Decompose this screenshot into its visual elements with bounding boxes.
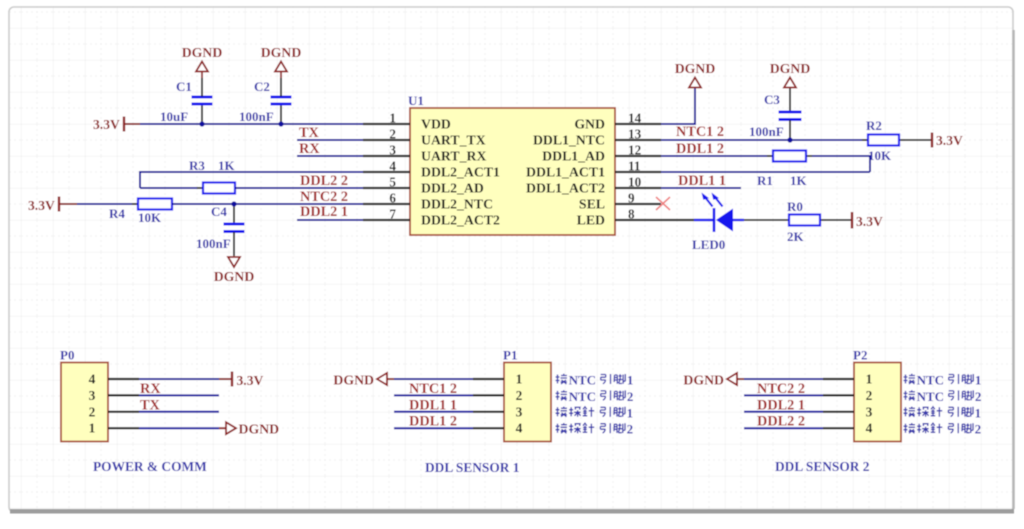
- svg-text:C3: C3: [764, 92, 780, 107]
- svg-text:3: 3: [89, 388, 96, 403]
- svg-text:5: 5: [389, 175, 396, 190]
- svg-text:1K: 1K: [218, 158, 236, 173]
- svg-text:1: 1: [975, 373, 982, 388]
- P2 pin function label 接NTC 引脚1: [904, 374, 916, 384]
- P2 pin function label 接探针 引脚2: [904, 423, 916, 433]
- capacitor C4: [233, 204, 235, 224]
- wire DDL2_ACT2 (pin 7) / net label DDL2_1: [297, 219, 363, 221]
- wire TX / net label TX: [297, 139, 363, 141]
- svg-text:100nF: 100nF: [196, 236, 231, 251]
- svg-text:9: 9: [628, 191, 635, 206]
- P0 pin 1: [108, 427, 139, 429]
- wire P2 pin2 / net label NTC2_2: [744, 394, 823, 396]
- power port 3.3V (VDD rail): [123, 117, 125, 132]
- svg-text:3: 3: [389, 143, 396, 158]
- U1 pin 10 (DDL1_ACT2): [615, 187, 661, 189]
- svg-text:1: 1: [627, 405, 634, 420]
- svg-text:RX: RX: [299, 141, 320, 157]
- LED LED0: [661, 219, 694, 221]
- junction C1/VDD: [199, 121, 204, 126]
- svg-text:DDL SENSOR 2: DDL SENSOR 2: [775, 459, 870, 474]
- svg-text:7: 7: [389, 207, 396, 222]
- power port 3.3V (right of R0): [851, 212, 853, 229]
- svg-text:RX: RX: [140, 381, 161, 397]
- svg-text:C1: C1: [176, 79, 192, 94]
- svg-text:11: 11: [628, 159, 640, 174]
- svg-text:R1: R1: [757, 173, 773, 188]
- svg-text:10uF: 10uF: [160, 109, 188, 124]
- wire DDL1_AD (pin12) / net label DDL1_2: [661, 155, 773, 157]
- P2 pin 2: [823, 394, 854, 396]
- svg-text:100nF: 100nF: [239, 109, 274, 124]
- wire R1 to pin11: [812, 155, 870, 157]
- svg-text:4: 4: [516, 421, 523, 436]
- junction C3/NTC1 wire: [787, 137, 792, 142]
- svg-text:10: 10: [628, 175, 642, 190]
- wire P1 pin1: [387, 378, 394, 380]
- svg-text:P2: P2: [853, 348, 867, 363]
- svg-text:C4: C4: [211, 204, 227, 219]
- svg-text:2: 2: [866, 388, 873, 403]
- svg-text:DDL2 2: DDL2 2: [757, 414, 805, 430]
- svg-text:NTC2 2: NTC2 2: [300, 189, 348, 205]
- svg-text:4: 4: [89, 372, 96, 387]
- U1 pin 7 (DDL2_ACT2): [363, 219, 410, 221]
- svg-text:2: 2: [516, 388, 523, 403]
- capacitor C1: [201, 105, 203, 125]
- P0 pin 2: [108, 411, 139, 413]
- P0 pin 4: [108, 378, 139, 380]
- svg-text:GND: GND: [574, 117, 605, 132]
- svg-text:DDL1_ACT2: DDL1_ACT2: [526, 181, 605, 196]
- resistor R0 2K: [744, 219, 789, 221]
- svg-text:DDL1 2: DDL1 2: [409, 414, 457, 430]
- svg-text:U1: U1: [408, 93, 424, 108]
- P1 pin 1: [473, 378, 504, 380]
- svg-text:2: 2: [627, 389, 634, 404]
- svg-text:UART_RX: UART_RX: [421, 149, 486, 164]
- ground DGND above pin14: [689, 78, 701, 88]
- resistor R4 10K: [132, 203, 138, 205]
- svg-text:DDL1 1: DDL1 1: [678, 173, 726, 189]
- svg-text:2: 2: [389, 127, 396, 142]
- U1 pin 13 (DDL1_NTC): [615, 139, 661, 141]
- svg-text:DDL2_AD: DDL2_AD: [421, 181, 484, 196]
- svg-text:UART_TX: UART_TX: [421, 133, 486, 148]
- wire VDD rail: [140, 123, 363, 125]
- power port 3.3V (P0): [231, 372, 233, 387]
- resistor R1 1K: [767, 155, 773, 157]
- wire DDL1_ACT2 (pin10) / net label DDL1_1: [661, 187, 741, 189]
- junction C2/VDD: [278, 121, 283, 126]
- power port 3.3V (R4 rail): [58, 197, 60, 212]
- P2 pin function label 接NTC 引脚2: [904, 390, 916, 400]
- svg-text:NTC1 2: NTC1 2: [409, 381, 457, 397]
- svg-text:3.3V: 3.3V: [28, 198, 55, 213]
- wire P0 pin4 to 3.3V: [139, 378, 219, 380]
- wire GND pin14 to DGND: [661, 123, 695, 125]
- ground DGND above C3: [784, 78, 796, 88]
- wire P1 pin3 / net label DDL1_1: [394, 411, 473, 413]
- LED0 emission arrows: [705, 197, 713, 207]
- ground DGND above C2: [275, 62, 287, 72]
- capacitor C3: [789, 88, 791, 112]
- svg-text:10K: 10K: [138, 210, 162, 225]
- svg-text:14: 14: [628, 111, 642, 126]
- U1 pin 6 (DDL2_NTC): [363, 203, 410, 205]
- svg-text:DDL2_ACT1: DDL2_ACT1: [421, 165, 500, 180]
- svg-text:2: 2: [89, 404, 96, 419]
- P1 pin function label 接NTC 引脚1: [556, 374, 568, 384]
- svg-text:R3: R3: [189, 158, 205, 173]
- svg-text:TX: TX: [140, 397, 161, 413]
- svg-text:3.3V: 3.3V: [936, 133, 963, 148]
- svg-text:NTC1 2: NTC1 2: [676, 124, 724, 140]
- ground DGND (P2 pin1): [727, 373, 737, 385]
- connector P0 body: [61, 363, 108, 442]
- svg-text:NTC2 2: NTC2 2: [757, 381, 805, 397]
- svg-text:10K: 10K: [868, 148, 892, 163]
- svg-text:NTC: NTC: [917, 389, 944, 404]
- wire P0 pin3 / net label RX: [139, 394, 219, 396]
- svg-text:3.3V: 3.3V: [237, 373, 264, 388]
- ground DGND below C4: [228, 257, 240, 267]
- U1 pin 3 (UART_RX): [363, 155, 410, 157]
- svg-text:DDL SENSOR 1: DDL SENSOR 1: [425, 460, 520, 475]
- P1 pin function label 接探针 引脚2: [556, 423, 568, 433]
- resistor R2 10K: [862, 139, 868, 141]
- junction C4/NTC2 wire: [231, 201, 236, 206]
- svg-text:LED0: LED0: [692, 237, 725, 252]
- svg-text:POWER & COMM: POWER & COMM: [93, 459, 207, 474]
- svg-text:DDL2_ACT2: DDL2_ACT2: [421, 213, 500, 228]
- svg-text:1K: 1K: [790, 173, 808, 188]
- svg-text:NTC: NTC: [569, 389, 596, 404]
- svg-text:2: 2: [975, 422, 982, 437]
- wire DDL2_NTC (pin 6) / net label NTC2_2: [172, 203, 363, 205]
- U1 pin 12 (DDL1_AD): [615, 155, 661, 157]
- svg-text:P1: P1: [503, 348, 517, 363]
- svg-text:1: 1: [516, 372, 523, 387]
- svg-text:3.3V: 3.3V: [856, 214, 883, 229]
- wire P1 pin2 / net label NTC1_2: [394, 394, 473, 396]
- wire P2 pin4 / net label DDL2_2: [744, 427, 823, 429]
- wire R2 to 3.3V: [905, 139, 932, 141]
- svg-text:1: 1: [627, 373, 634, 388]
- resistor R3 1K: [140, 187, 203, 189]
- svg-text:13: 13: [628, 127, 642, 142]
- wire P2 pin1: [737, 378, 744, 380]
- U1 pin 1 (VDD): [363, 123, 410, 125]
- wire P2 pin3 / net label DDL2_1: [744, 411, 823, 413]
- wire R0 to 3.3V: [826, 219, 852, 221]
- power port 3.3V (right of R2): [931, 133, 933, 148]
- capacitor C2: [280, 105, 282, 125]
- svg-text:12: 12: [628, 143, 642, 158]
- P2 pin 1: [823, 378, 854, 380]
- svg-text:DGND: DGND: [261, 45, 302, 60]
- wire NTC1_2 (pin13) / net label NTC1_2: [661, 139, 868, 141]
- svg-text:DDL1 2: DDL1 2: [676, 141, 724, 157]
- svg-text:DDL2 2: DDL2 2: [300, 173, 348, 189]
- wire RX / net label RX: [297, 155, 363, 157]
- svg-text:4: 4: [389, 159, 396, 174]
- wire P0 pin1 to DGND: [139, 427, 219, 429]
- P2 pin 4: [823, 427, 854, 429]
- wire to R4: [77, 203, 138, 205]
- svg-text:3.3V: 3.3V: [93, 117, 120, 132]
- svg-text:3: 3: [516, 404, 523, 419]
- svg-text:1: 1: [89, 421, 96, 436]
- svg-text:DDL1_ACT1: DDL1_ACT1: [526, 165, 605, 180]
- wire DDL2_AD (pin 5) / net label DDL2_2: [235, 187, 363, 189]
- ground DGND (P1 pin1): [377, 373, 387, 385]
- svg-text:R0: R0: [787, 199, 803, 214]
- P1 pin function label 接NTC 引脚2: [556, 390, 568, 400]
- P1 pin 3: [473, 411, 504, 413]
- svg-text:DDL1_NTC: DDL1_NTC: [533, 133, 605, 148]
- svg-text:DDL2 1: DDL2 1: [757, 397, 805, 413]
- svg-text:DGND: DGND: [239, 422, 280, 437]
- P1 pin 4: [473, 427, 504, 429]
- ground DGND (P0 pin1): [226, 422, 236, 434]
- svg-text:TX: TX: [299, 125, 320, 141]
- wire P1 pin4 / net label DDL1_2: [394, 427, 473, 429]
- svg-text:100nF: 100nF: [749, 124, 784, 139]
- svg-text:VDD: VDD: [421, 117, 451, 132]
- ground DGND above C1: [196, 62, 208, 72]
- svg-text:DDL1_AD: DDL1_AD: [542, 149, 605, 164]
- svg-text:R4: R4: [109, 206, 125, 221]
- svg-text:8: 8: [628, 207, 635, 222]
- U1 pin 5 (DDL2_AD): [363, 187, 410, 189]
- svg-text:DGND: DGND: [333, 373, 374, 388]
- svg-text:6: 6: [389, 191, 396, 206]
- P2 pin 3: [823, 411, 854, 413]
- svg-text:2: 2: [627, 422, 634, 437]
- svg-text:LED: LED: [577, 213, 605, 228]
- P1 pin 2: [473, 394, 504, 396]
- svg-text:3: 3: [866, 404, 873, 419]
- connector P2 body: [854, 363, 901, 442]
- no-ERC cross on pin9: [656, 197, 670, 210]
- svg-text:SEL: SEL: [579, 197, 605, 212]
- svg-text:DDL1 1: DDL1 1: [409, 397, 457, 413]
- svg-text:1: 1: [389, 111, 396, 126]
- svg-text:NTC: NTC: [569, 373, 596, 388]
- svg-text:2K: 2K: [787, 229, 805, 244]
- U1 pin 14 (GND): [615, 123, 661, 125]
- svg-text:DDL2_NTC: DDL2_NTC: [421, 197, 493, 212]
- U1 pin 8 (LED): [615, 219, 661, 221]
- U1 pin 11 (DDL1_ACT1): [615, 171, 661, 173]
- P1 pin function label 接探针 引脚1: [556, 407, 568, 417]
- svg-text:4: 4: [866, 421, 873, 436]
- svg-text:R2: R2: [866, 118, 882, 133]
- U1 pin 9 (SEL): [615, 203, 661, 205]
- svg-text:P0: P0: [60, 348, 74, 363]
- svg-text:1: 1: [866, 372, 873, 387]
- svg-text:DDL2 1: DDL2 1: [300, 204, 348, 220]
- svg-text:2: 2: [975, 389, 982, 404]
- wire P0 pin2 / net label TX: [139, 411, 219, 413]
- svg-text:C2: C2: [254, 79, 270, 94]
- svg-text:DGND: DGND: [683, 373, 724, 388]
- P0 pin 3: [108, 394, 139, 396]
- svg-text:DGND: DGND: [675, 61, 716, 76]
- wire DDL2_ACT1 loop (pin 4): [140, 171, 363, 173]
- svg-text:DGND: DGND: [182, 45, 223, 60]
- svg-text:DGND: DGND: [214, 269, 255, 284]
- IC U1 body: [410, 108, 615, 235]
- P2 pin function label 接探针 引脚1: [904, 407, 916, 417]
- svg-text:1: 1: [975, 405, 982, 420]
- connector P1 body: [504, 363, 551, 442]
- svg-text:NTC: NTC: [917, 373, 944, 388]
- U1 pin 2 (UART_TX): [363, 139, 410, 141]
- svg-text:DGND: DGND: [770, 61, 811, 76]
- U1 pin 4 (DDL2_ACT1): [363, 171, 410, 173]
